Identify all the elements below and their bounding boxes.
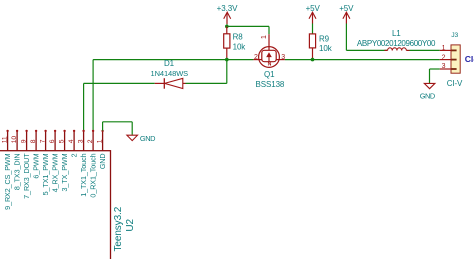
connector J3 — [440, 45, 461, 73]
svg-text:Q1: Q1 — [264, 70, 275, 79]
svg-text:1_TX1_Touch: 1_TX1_Touch — [79, 153, 88, 196]
svg-text:3: 3 — [442, 63, 446, 70]
power symbol +5V no.2 — [339, 4, 354, 23]
svg-text:10: 10 — [11, 136, 18, 144]
svg-text:9: 9 — [20, 139, 27, 143]
svg-text:6: 6 — [49, 139, 56, 143]
svg-text:10k: 10k — [233, 42, 247, 51]
ground symbol at teensy — [127, 135, 138, 140]
teensy pin 4 (2) — [68, 130, 79, 158]
svg-text:4: 4 — [68, 139, 75, 143]
svg-text:4_RX_PWM: 4_RX_PWM — [51, 153, 60, 192]
teensy U2 body — [0, 151, 111, 259]
teensy pin 9 (7_RX3_DOUT) — [20, 130, 31, 199]
wire J3 pin3 to GND — [430, 69, 440, 83]
svg-text:N: N — [268, 61, 272, 67]
label R9 value 10k — [319, 44, 333, 53]
svg-text:10k: 10k — [319, 44, 333, 53]
pin number 2 of J3 — [442, 54, 446, 61]
svg-text:7_RX3_DOUT: 7_RX3_DOUT — [22, 153, 31, 199]
svg-text:CI-V: CI-V — [447, 79, 463, 88]
label D1 — [164, 59, 175, 68]
label R9 — [319, 35, 330, 44]
svg-text:3: 3 — [281, 54, 285, 61]
wire teensy pin2 riser — [92, 60, 94, 131]
svg-text:9_RX2_CS_PWM: 9_RX2_CS_PWM — [3, 153, 12, 209]
wire +3.3V junction to gate line — [227, 25, 269, 27]
label R8 value 10k — [233, 42, 247, 51]
junction R8 bottom — [225, 58, 229, 62]
svg-text:6_PWM: 6_PWM — [32, 153, 41, 178]
svg-text:CI-V: CI-V — [465, 54, 474, 64]
ground symbol at J3 — [424, 83, 435, 88]
svg-text:R8: R8 — [233, 33, 244, 42]
svg-text:1: 1 — [96, 139, 103, 143]
label L1 value — [357, 39, 436, 48]
label Q1 value BSS138 — [256, 80, 285, 89]
svg-text:2: 2 — [87, 139, 94, 143]
pin number 3 of J3 — [442, 63, 446, 70]
teensy pin 10 (8_TX3_DIN) — [11, 130, 22, 190]
wire main rail left (pin2 riser to Q1) — [93, 59, 253, 61]
label J3 — [451, 32, 458, 39]
power symbol +5V no.1 — [306, 4, 321, 23]
junction +3.3V node — [225, 25, 229, 29]
teensy pin 3 (1_TX1_Touch) — [77, 130, 88, 197]
wire gate drop — [268, 26, 270, 34]
resistor R8 — [224, 26, 230, 59]
svg-text:2: 2 — [442, 54, 446, 61]
label R8 — [233, 33, 244, 42]
svg-text:0_RX1_Touch: 0_RX1_Touch — [89, 153, 98, 197]
wire diode line left — [84, 82, 155, 84]
label U2 value Teensy3.2 — [113, 206, 124, 251]
svg-text:8_TX3_DIN: 8_TX3_DIN — [13, 154, 22, 191]
wire teensy pin1 to GND — [103, 122, 133, 135]
teensy pin 7 (5_TX1_PWM) — [39, 130, 50, 196]
label GND at J3 — [420, 91, 435, 100]
svg-text:D1: D1 — [164, 59, 175, 68]
pin number 1 of J3 — [442, 45, 446, 52]
svg-text:1N4148WS: 1N4148WS — [151, 69, 189, 78]
teensy pin 1 (GND) — [96, 130, 107, 169]
power symbol +3.3V — [217, 4, 238, 26]
diode D1 1N4148WS — [155, 78, 186, 89]
svg-text:BSS138: BSS138 — [256, 80, 285, 89]
svg-text:7: 7 — [39, 139, 46, 143]
svg-text:5_TX1_PWM: 5_TX1_PWM — [41, 153, 50, 195]
svg-text:GND: GND — [420, 91, 435, 100]
svg-text:+5V: +5V — [306, 4, 321, 13]
svg-text:5: 5 — [58, 139, 65, 143]
teensy pin 8 (6_PWM) — [30, 130, 41, 179]
svg-text:11: 11 — [1, 136, 8, 143]
label GND at teensy — [140, 134, 155, 143]
svg-text:GND: GND — [140, 134, 155, 143]
svg-text:8: 8 — [30, 139, 37, 143]
label U2 reference — [125, 218, 136, 231]
label J3 value CI-V — [447, 79, 463, 88]
svg-text:J3: J3 — [451, 32, 458, 39]
svg-text:R9: R9 — [319, 35, 330, 44]
teensy pin 11 (9_RX2_CS_PWM) — [1, 130, 12, 210]
wire L1 to J3 pin1 — [410, 49, 440, 51]
svg-text:L1: L1 — [392, 29, 401, 38]
label L1 — [392, 29, 401, 38]
label D1 value 1N4148WS — [151, 69, 189, 78]
pin number 1 of Q1 — [261, 35, 268, 39]
svg-text:3: 3 — [77, 139, 84, 143]
text note CI-V — [465, 54, 474, 64]
junction R9 bottom — [311, 58, 315, 62]
pin number 3 of Q1 — [281, 54, 285, 61]
svg-text:GND: GND — [98, 154, 107, 170]
wire main rail right (Q1 to J3 pin2) — [285, 59, 440, 61]
resistor R9 — [309, 24, 315, 60]
wire diode line right — [186, 82, 227, 84]
svg-text:U2: U2 — [125, 218, 136, 231]
transistor Q1 BSS138 — [253, 34, 284, 67]
svg-text:ABPY00201209600Y00: ABPY00201209600Y00 — [357, 39, 436, 48]
label Q1 — [264, 70, 275, 79]
wire diode riser to rail — [226, 60, 228, 84]
svg-text:2: 2 — [254, 54, 258, 61]
wire +5V to L1 — [346, 24, 387, 51]
svg-text:2: 2 — [70, 153, 79, 157]
pin number 2 of Q1 — [254, 54, 258, 61]
svg-text:3_TX_PWM: 3_TX_PWM — [60, 153, 69, 191]
svg-text:1: 1 — [442, 45, 446, 52]
wire teensy pin3 riser — [83, 83, 85, 130]
svg-text:1: 1 — [261, 35, 268, 39]
inductor L1 ferrite bead — [385, 48, 410, 51]
teensy pin 6 (4_RX_PWM) — [49, 130, 60, 193]
teensy pin 5 (3_TX_PWM) — [58, 130, 69, 192]
svg-text:Teensy3.2: Teensy3.2 — [113, 206, 124, 251]
teensy pin 2 (0_RX1_Touch) — [87, 130, 98, 198]
